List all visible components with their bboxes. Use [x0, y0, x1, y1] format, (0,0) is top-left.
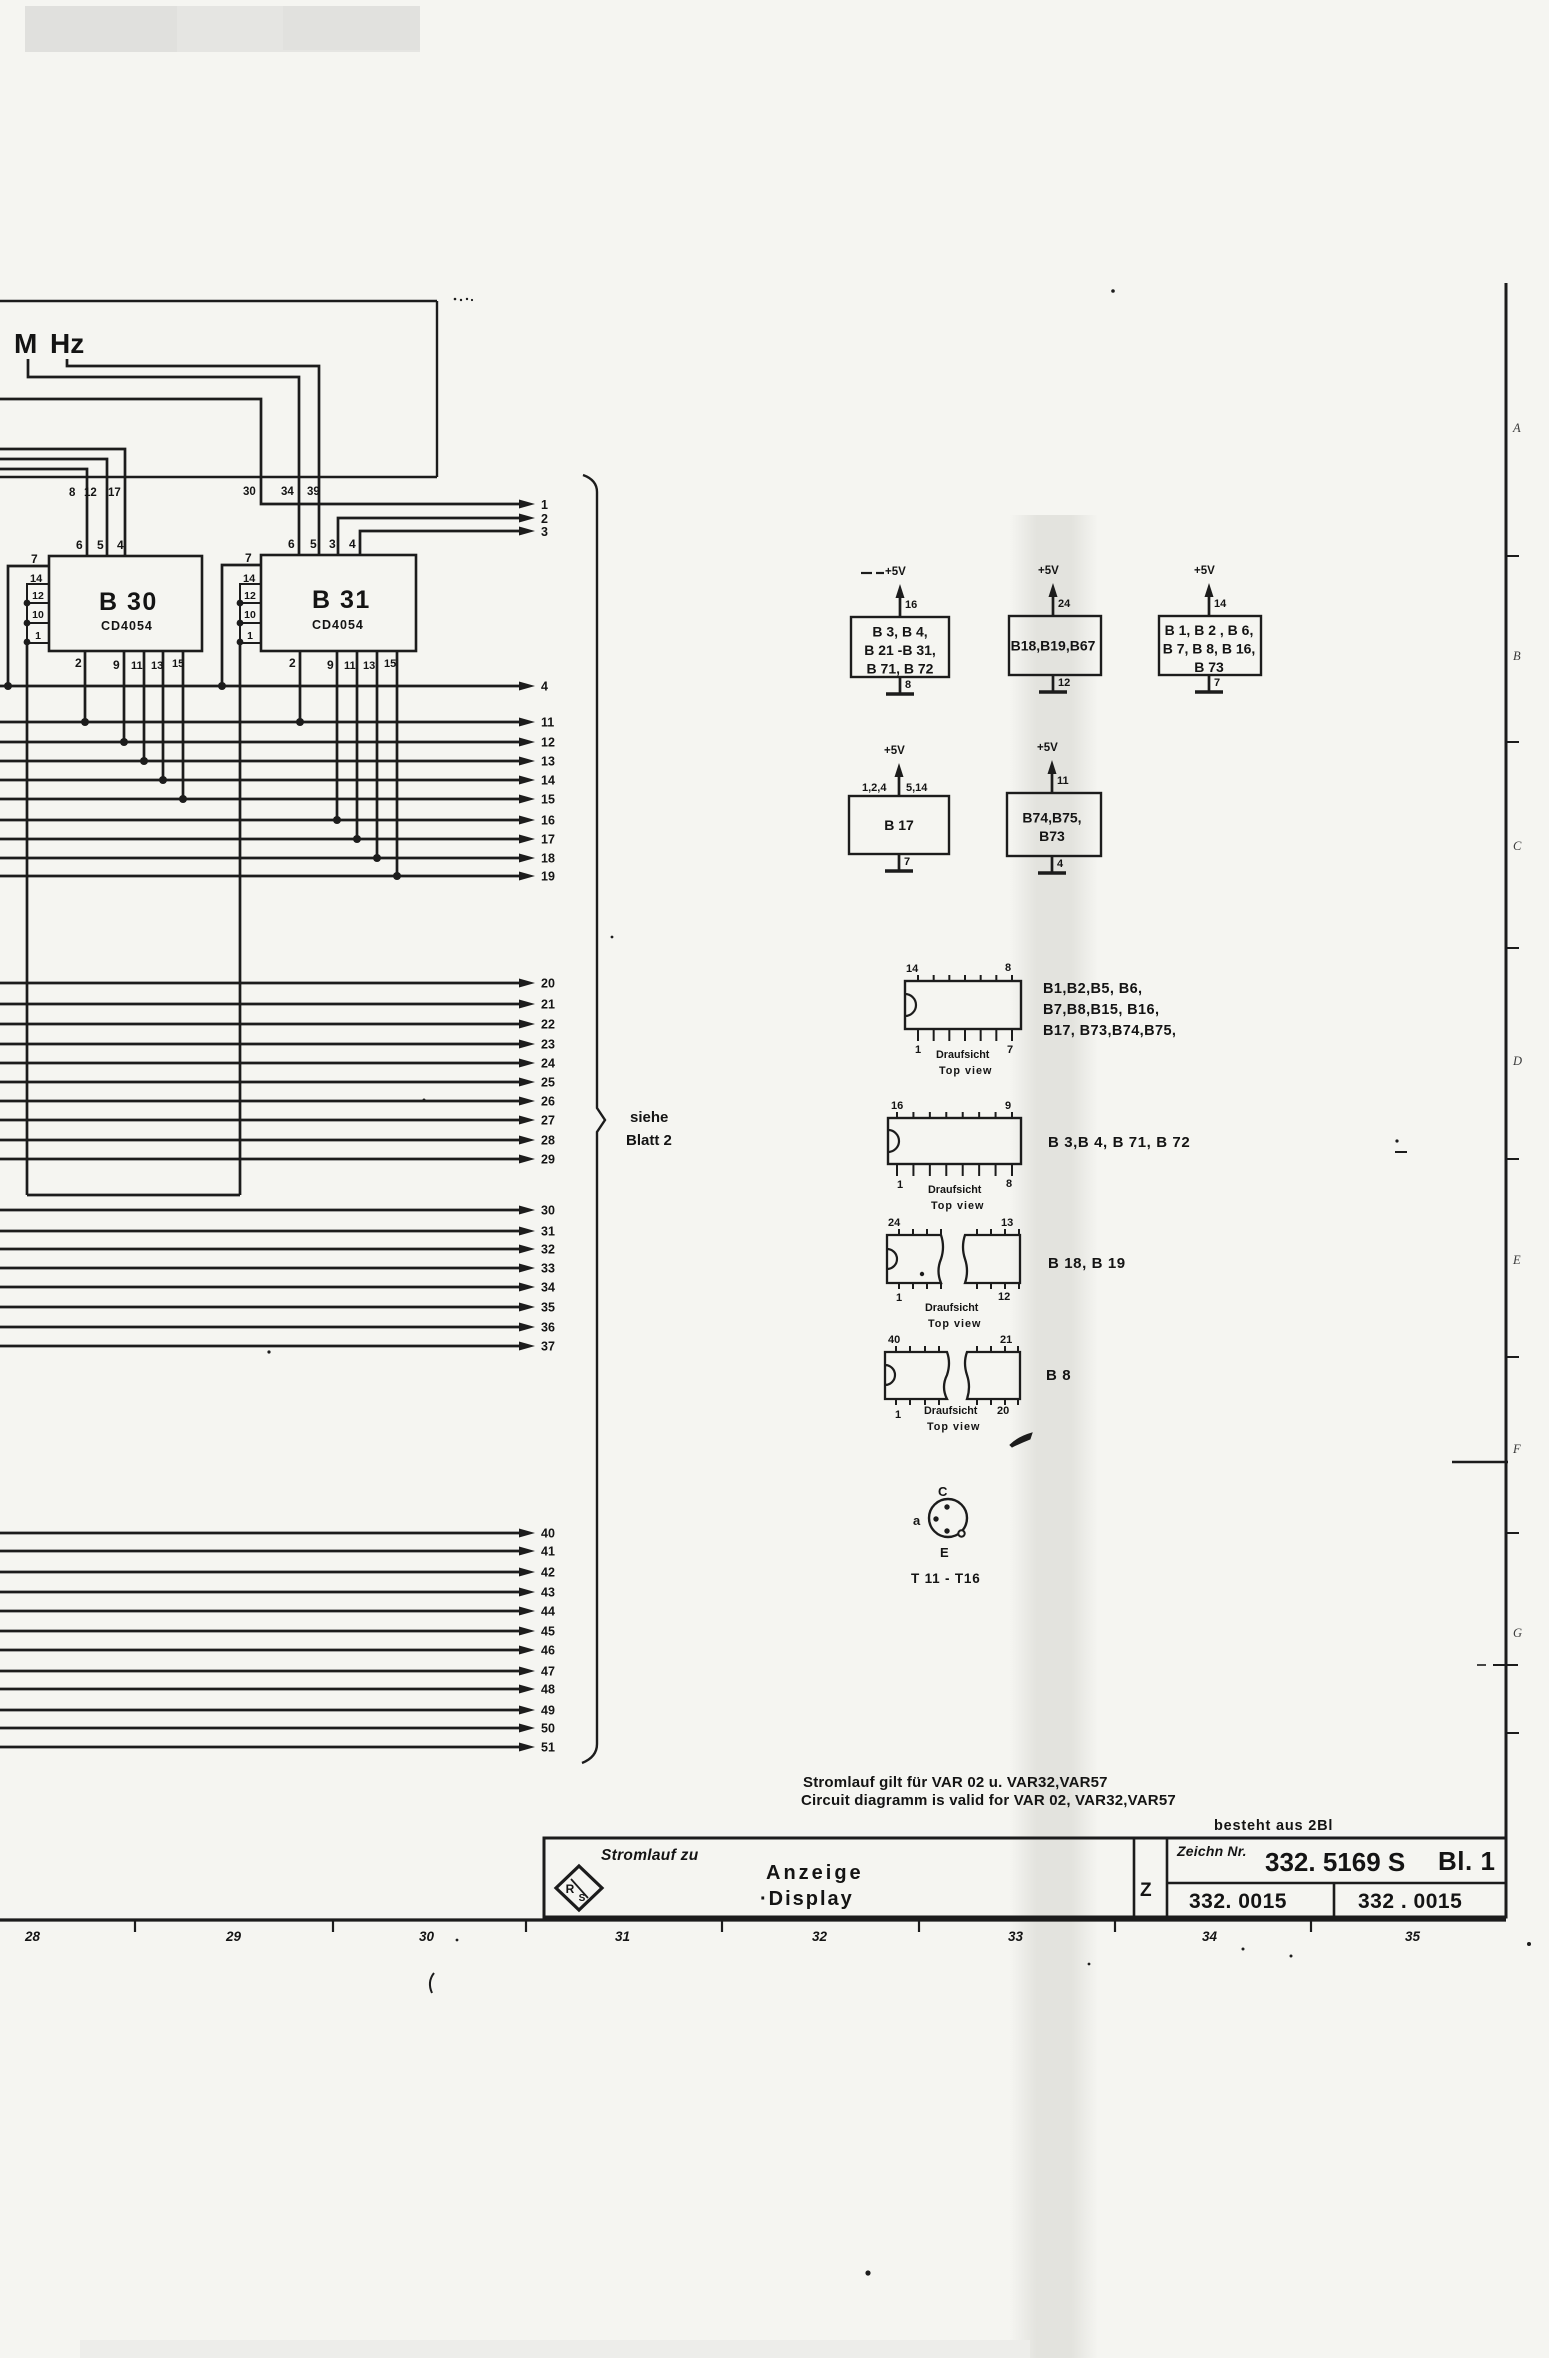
svg-text:33: 33 [541, 1262, 555, 1276]
svg-text:14: 14 [906, 963, 919, 975]
svg-text:B 17: B 17 [884, 817, 914, 833]
svg-text:12: 12 [998, 1291, 1010, 1303]
svg-text:16: 16 [905, 599, 917, 611]
svg-text:32: 32 [541, 1243, 555, 1257]
svg-text:9: 9 [327, 658, 334, 672]
svg-text:1,2,4: 1,2,4 [862, 782, 887, 794]
svg-text:B 3, B 4,: B 3, B 4, [872, 624, 927, 640]
svg-text:A: A [1512, 421, 1521, 435]
svg-text:B1,B2,B5, B6,: B1,B2,B5, B6, [1043, 981, 1143, 997]
svg-text:30: 30 [541, 1204, 555, 1218]
svg-text:19: 19 [541, 870, 555, 884]
svg-text:5: 5 [97, 538, 104, 552]
svg-text:4: 4 [1057, 858, 1064, 870]
svg-text:B 21 -B 31,: B 21 -B 31, [864, 642, 936, 658]
svg-text:4: 4 [349, 537, 356, 551]
svg-text:12: 12 [32, 590, 44, 602]
svg-text:12: 12 [1058, 677, 1070, 689]
svg-text:20: 20 [541, 977, 555, 991]
svg-text:C: C [1513, 839, 1522, 853]
svg-text:4: 4 [117, 538, 124, 552]
svg-text:B: B [1513, 649, 1521, 663]
svg-text:50: 50 [541, 1722, 555, 1736]
svg-text:24: 24 [888, 1217, 901, 1229]
svg-text:332. 0015: 332. 0015 [1189, 1890, 1287, 1913]
svg-text:11: 11 [541, 716, 554, 730]
svg-text:Top view: Top view [939, 1065, 992, 1077]
svg-text:2: 2 [289, 656, 296, 670]
svg-text:12: 12 [541, 736, 555, 750]
svg-text:B 31: B 31 [312, 586, 371, 614]
svg-text:B74,B75,: B74,B75, [1022, 809, 1081, 825]
svg-text:18: 18 [541, 852, 555, 866]
svg-text:10: 10 [32, 609, 44, 621]
svg-text:13: 13 [541, 755, 555, 769]
svg-text:7: 7 [1214, 677, 1220, 689]
svg-text:Top view: Top view [928, 1318, 981, 1330]
svg-text:12: 12 [244, 590, 256, 602]
svg-text:8: 8 [1006, 1178, 1012, 1190]
svg-text:30: 30 [419, 1929, 435, 1944]
svg-text:B73: B73 [1039, 828, 1065, 844]
svg-text:26: 26 [541, 1095, 555, 1109]
svg-text:B 1, B 2 , B 6,: B 1, B 2 , B 6, [1165, 622, 1254, 638]
svg-text:Top view: Top view [931, 1200, 984, 1212]
svg-text:21: 21 [1000, 1334, 1012, 1346]
svg-text:a: a [913, 1513, 921, 1528]
svg-text:28: 28 [541, 1134, 555, 1148]
svg-text:Zeichn Nr.: Zeichn Nr. [1176, 1843, 1247, 1859]
svg-text:D: D [1512, 1054, 1522, 1068]
svg-text:siehe: siehe [630, 1109, 668, 1126]
svg-text:Top view: Top view [927, 1421, 980, 1433]
svg-text:1: 1 [541, 498, 548, 512]
svg-text:+5V: +5V [1194, 565, 1215, 577]
svg-text:Circuit diagramm is valid for: Circuit diagramm is valid for VAR 02, VA… [801, 1792, 1176, 1809]
svg-text:B 3,B 4, B 71, B 72: B 3,B 4, B 71, B 72 [1048, 1134, 1190, 1151]
svg-text:24: 24 [541, 1057, 555, 1071]
svg-text:27: 27 [541, 1114, 555, 1128]
svg-text:332 . 0015: 332 . 0015 [1358, 1890, 1462, 1913]
svg-text:R: R [566, 1882, 575, 1896]
svg-text:31: 31 [615, 1929, 630, 1944]
svg-text:42: 42 [541, 1566, 555, 1580]
svg-text:14: 14 [541, 774, 555, 788]
svg-text:41: 41 [541, 1545, 555, 1559]
svg-text:13: 13 [1001, 1217, 1013, 1229]
svg-text:Draufsicht: Draufsicht [928, 1184, 982, 1196]
svg-text:40: 40 [888, 1334, 900, 1346]
svg-text:15: 15 [541, 793, 555, 807]
svg-text:B 8: B 8 [1046, 1367, 1071, 1384]
svg-text:Stromlauf gilt für VAR 02 u. V: Stromlauf gilt für VAR 02 u. VAR32,VAR57 [803, 1774, 1108, 1791]
svg-text:51: 51 [541, 1741, 555, 1755]
svg-text:15: 15 [172, 658, 184, 670]
svg-text:6: 6 [76, 538, 83, 552]
svg-text:E: E [1512, 1253, 1521, 1267]
svg-text:Bl. 1: Bl. 1 [1438, 1846, 1495, 1876]
svg-text:9: 9 [113, 658, 120, 672]
svg-text:32: 32 [812, 1929, 828, 1944]
svg-text:23: 23 [541, 1038, 555, 1052]
svg-text:45: 45 [541, 1625, 555, 1639]
svg-text:49: 49 [541, 1704, 555, 1718]
svg-text:besteht aus 2Bl: besteht aus 2Bl [1214, 1818, 1333, 1834]
svg-text:Anzeige: Anzeige [766, 1862, 864, 1884]
svg-text:7: 7 [31, 552, 38, 566]
svg-text:1: 1 [247, 630, 253, 642]
svg-text:·Display: ·Display [760, 1888, 854, 1910]
svg-text:47: 47 [541, 1665, 555, 1679]
svg-text:7: 7 [904, 856, 910, 868]
svg-text:Draufsicht: Draufsicht [924, 1405, 978, 1417]
svg-text:1: 1 [35, 630, 41, 642]
svg-text:34: 34 [1202, 1929, 1218, 1944]
svg-text:16: 16 [891, 1100, 903, 1112]
svg-text:B 30: B 30 [99, 588, 158, 616]
svg-text:21: 21 [541, 998, 555, 1012]
svg-text:4: 4 [541, 680, 548, 694]
svg-text:29: 29 [541, 1153, 555, 1167]
svg-text:16: 16 [541, 814, 555, 828]
svg-text:25: 25 [541, 1076, 555, 1090]
svg-text:2: 2 [541, 512, 548, 526]
svg-text:17: 17 [541, 833, 555, 847]
svg-text:34: 34 [281, 486, 294, 498]
svg-text:44: 44 [541, 1605, 555, 1619]
svg-text:7: 7 [1007, 1044, 1013, 1056]
svg-text:+5V: +5V [1038, 565, 1059, 577]
svg-text:9: 9 [1005, 1100, 1011, 1112]
svg-text:1: 1 [896, 1292, 902, 1304]
svg-text:B 73: B 73 [1194, 659, 1224, 675]
svg-text:2: 2 [75, 656, 82, 670]
svg-text:1: 1 [895, 1409, 901, 1421]
svg-text:C: C [938, 1484, 948, 1499]
svg-text:3: 3 [329, 537, 336, 551]
svg-text:43: 43 [541, 1586, 555, 1600]
svg-text:Z: Z [1140, 1880, 1152, 1901]
svg-text:5,14: 5,14 [906, 782, 928, 794]
svg-text:13: 13 [363, 660, 375, 672]
svg-text:48: 48 [541, 1683, 555, 1697]
svg-text:40: 40 [541, 1527, 555, 1541]
svg-text:35: 35 [1405, 1929, 1421, 1944]
svg-text:12: 12 [84, 487, 97, 499]
svg-text:Stromlauf zu: Stromlauf zu [601, 1847, 699, 1864]
svg-text:11: 11 [344, 660, 356, 672]
svg-text:T 11 - T16: T 11 - T16 [911, 1571, 981, 1586]
svg-text:B17, B73,B74,B75,: B17, B73,B74,B75, [1043, 1023, 1176, 1039]
svg-text:36: 36 [541, 1321, 555, 1335]
svg-text:35: 35 [541, 1301, 555, 1315]
svg-text:+5V: +5V [1037, 742, 1058, 754]
svg-text:11: 11 [131, 660, 143, 672]
svg-text:33: 33 [1008, 1929, 1024, 1944]
svg-text:10: 10 [244, 609, 256, 621]
svg-text:Blatt 2: Blatt 2 [626, 1132, 672, 1149]
svg-text:F: F [1512, 1442, 1521, 1456]
svg-text:20: 20 [997, 1405, 1009, 1417]
svg-text:22: 22 [541, 1018, 555, 1032]
svg-text:CD4054: CD4054 [101, 619, 153, 633]
svg-text:8: 8 [69, 487, 76, 499]
svg-text:5: 5 [310, 537, 317, 551]
svg-text:6: 6 [288, 537, 295, 551]
svg-text:7: 7 [245, 551, 252, 565]
svg-text:3: 3 [541, 525, 548, 539]
svg-text:B18,B19,B67: B18,B19,B67 [1011, 638, 1096, 654]
svg-text:37: 37 [541, 1340, 555, 1354]
svg-text:Draufsicht: Draufsicht [936, 1049, 990, 1061]
svg-text:B 18, B 19: B 18, B 19 [1048, 1255, 1126, 1272]
svg-text:11: 11 [1057, 775, 1069, 787]
svg-text:8: 8 [905, 679, 911, 691]
svg-text:24: 24 [1058, 598, 1071, 610]
svg-text:1: 1 [897, 1179, 903, 1191]
svg-text:17: 17 [108, 487, 121, 499]
svg-text:Hz: Hz [50, 328, 84, 359]
svg-text:29: 29 [225, 1929, 242, 1944]
svg-text:8: 8 [1005, 962, 1011, 974]
svg-text:+5V: +5V [885, 566, 906, 578]
svg-text:B 71, B 72: B 71, B 72 [867, 661, 934, 677]
svg-text:46: 46 [541, 1644, 555, 1658]
svg-text:B 7, B 8, B 16,: B 7, B 8, B 16, [1163, 641, 1256, 657]
svg-text:E: E [940, 1545, 949, 1560]
svg-text:M: M [14, 328, 37, 359]
svg-text:+5V: +5V [884, 745, 905, 757]
svg-text:34: 34 [541, 1281, 555, 1295]
svg-text:15: 15 [384, 658, 396, 670]
svg-text:30: 30 [243, 486, 256, 498]
svg-text:G: G [1513, 1626, 1522, 1640]
svg-text:332. 5169 S: 332. 5169 S [1265, 1847, 1405, 1877]
svg-text:CD4054: CD4054 [312, 618, 364, 632]
svg-text:31: 31 [541, 1225, 555, 1239]
svg-text:1: 1 [915, 1044, 921, 1056]
svg-text:Draufsicht: Draufsicht [925, 1302, 979, 1314]
svg-text:14: 14 [1214, 598, 1227, 610]
svg-text:13: 13 [151, 660, 163, 672]
svg-text:39: 39 [307, 486, 320, 498]
svg-text:28: 28 [24, 1929, 41, 1944]
svg-text:B7,B8,B15, B16,: B7,B8,B15, B16, [1043, 1002, 1159, 1018]
